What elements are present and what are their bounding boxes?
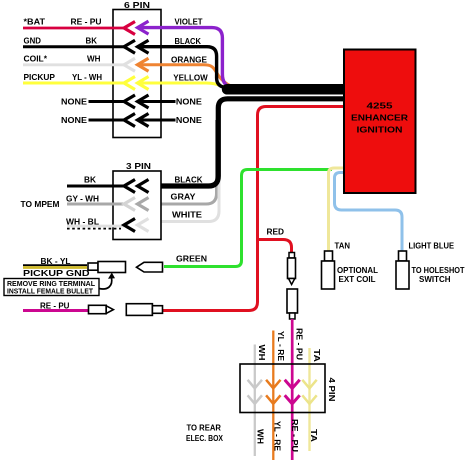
wire red branch to bullet <box>258 240 292 254</box>
chevron 3pin pin3 right (white) <box>138 219 149 232</box>
svg-text:*BAT: *BAT <box>24 18 46 27</box>
svg-text:SWITCH: SWITCH <box>419 275 451 284</box>
terminal female bullet green <box>137 262 163 272</box>
chevron 3pin pin1 right <box>138 180 149 193</box>
svg-text:WHITE: WHITE <box>172 210 203 219</box>
chevron 4pin TA a <box>302 380 316 389</box>
chevron pin5 left <box>124 95 135 108</box>
svg-text:ELEC. BOX: ELEC. BOX <box>186 434 224 443</box>
svg-text:WH: WH <box>87 54 101 63</box>
wire BK to 6-pin pin2 <box>23 45 124 48</box>
note box remove ring terminal <box>4 279 99 296</box>
svg-text:RE - PU: RE - PU <box>290 419 299 452</box>
wire black from 6-pin to harness <box>139 47 235 88</box>
terminal light blue bullet receptacle <box>396 251 409 289</box>
wire GY-WH to 3-pin <box>67 203 124 206</box>
svg-text:TO MPEM: TO MPEM <box>21 200 60 209</box>
connector J3 4 PIN box <box>240 364 336 413</box>
wire orange from 6-pin to harness <box>139 65 238 86</box>
chevron pin6 right <box>138 114 149 127</box>
svg-text:VIOLET: VIOLET <box>175 17 203 26</box>
svg-text:YL - WH: YL - WH <box>72 73 102 82</box>
wire YL-WH to 6-pin pin4 <box>23 82 124 85</box>
chevron pin3 left (white) <box>124 58 135 71</box>
svg-text:TA: TA <box>312 349 321 362</box>
svg-text:PICKUP GND: PICKUP GND <box>23 269 90 278</box>
wire RE-PU to 4-pin <box>291 319 294 460</box>
chevron pin4 right (yellow) <box>138 77 149 90</box>
svg-text:RED: RED <box>267 228 285 237</box>
chevron 4pin RE-PU a <box>285 380 300 389</box>
wire WH to 6-pin pin3 <box>23 63 124 66</box>
chevron 4pin WH b <box>248 395 262 404</box>
chevron 3pin pin1 left <box>124 180 135 193</box>
wire white riser from 3-pin (hidden behind black cable) <box>139 130 219 222</box>
chevron 3pin pin2 left (lt gray) <box>124 198 135 211</box>
svg-text:BLACK: BLACK <box>175 37 202 46</box>
svg-text:4 PIN: 4 PIN <box>327 378 336 402</box>
chevron pin3 right (orange) <box>138 58 149 71</box>
wire WH-BL to 3-pin (white) <box>67 225 124 228</box>
svg-text:NONE: NONE <box>61 98 88 107</box>
svg-text:TAN: TAN <box>335 241 351 250</box>
chevron pin1 right (violet) <box>138 21 149 34</box>
connector J1 6 PIN box <box>113 1 161 138</box>
svg-text:TO REAR: TO REAR <box>187 423 222 432</box>
svg-text:6 PIN: 6 PIN <box>124 1 150 10</box>
wire YL-RE to 4-pin <box>272 331 274 460</box>
svg-text:EXT COIL: EXT COIL <box>339 275 376 284</box>
chevron pin1 left (red) <box>124 22 135 35</box>
svg-text:PICKUP: PICKUP <box>24 73 56 82</box>
chevron 4pin YL-RE a <box>266 380 280 389</box>
wire none pin5 left <box>89 100 125 103</box>
wire light blue from module <box>335 173 403 252</box>
svg-text:BK: BK <box>84 176 96 185</box>
chevron pin6 left <box>124 114 135 127</box>
svg-text:NONE: NONE <box>61 116 88 125</box>
wire tan from module <box>329 168 345 251</box>
wire WH to 4-pin <box>254 345 256 457</box>
arrow from note to bullet <box>99 273 115 289</box>
svg-text:YL - RE: YL - RE <box>273 421 282 452</box>
wire red from module <box>161 107 345 311</box>
svg-text:YL - RE: YL - RE <box>276 331 285 362</box>
chevron 3pin pin2 right (gray) <box>138 198 149 211</box>
svg-text:TA: TA <box>309 429 318 442</box>
label OPTIONAL EXT COIL <box>337 266 378 284</box>
svg-text:COIL*: COIL* <box>24 54 48 63</box>
svg-text:LIGHT BLUE: LIGHT BLUE <box>409 241 455 250</box>
svg-text:GREEN: GREEN <box>176 254 207 263</box>
chevron 4pin YL-RE b <box>266 395 280 404</box>
svg-text:RE - PU: RE - PU <box>295 328 304 360</box>
svg-text:BLACK: BLACK <box>175 176 203 185</box>
module U1 4255 Enhancer Ignition <box>344 50 416 194</box>
chevron pin4 left (yellow) <box>124 77 135 90</box>
svg-text:3 PIN: 3 PIN <box>126 162 151 171</box>
wire violet from 6-pin to harness <box>139 28 240 88</box>
wire green to module <box>164 170 332 267</box>
chevron pin2 left <box>124 40 135 53</box>
wire none pin6 left <box>89 119 125 122</box>
wire gray riser from 3-pin (hidden behind black cable) <box>139 120 217 204</box>
svg-text:GND: GND <box>24 36 42 45</box>
wire RE-PU to 6-pin pin1 <box>23 27 124 30</box>
svg-text:OPTIONAL: OPTIONAL <box>337 266 378 275</box>
svg-text:IGNITION: IGNITION <box>357 125 403 134</box>
svg-text:YELLOW: YELLOW <box>173 74 208 83</box>
svg-text:NONE: NONE <box>176 98 203 107</box>
svg-text:ENHANCER: ENHANCER <box>351 114 408 123</box>
chevron 4pin WH a <box>248 380 262 389</box>
svg-text:GY - WH: GY - WH <box>66 194 99 203</box>
chevron 4pin TA b <box>302 395 316 404</box>
chevron pin2 right <box>138 40 149 53</box>
terminal male bullet re-pu <box>89 305 114 313</box>
svg-text:WH: WH <box>256 429 265 444</box>
svg-text:WH: WH <box>257 345 266 361</box>
wire black 3-pin riser to module <box>139 99 344 186</box>
svg-text:ORANGE: ORANGE <box>171 55 208 64</box>
chevron 3pin pin3 left (black) <box>124 219 135 232</box>
chevron 4pin RE-PU b <box>285 395 300 404</box>
wire WH-BL dashed stripe <box>67 228 121 230</box>
wire RE-PU pickup <box>23 309 89 312</box>
wire none pin6 right <box>139 119 176 122</box>
connector J2 3 PIN box <box>113 162 161 240</box>
svg-text:TO HOLESHOT: TO HOLESHOT <box>412 266 465 275</box>
label TO HOLESHOT SWITCH <box>412 266 465 284</box>
wire none pin5 right <box>139 100 176 103</box>
svg-text:INSTALL FEMALE BULLET: INSTALL FEMALE BULLET <box>7 287 93 296</box>
wire BK to 3-pin <box>67 185 124 188</box>
cable harness bundle to module <box>222 84 344 95</box>
svg-text:NONE: NONE <box>176 116 203 125</box>
terminal female bullet red <box>126 304 162 316</box>
chevron pin5 right <box>138 95 149 108</box>
svg-text:RE - PU: RE - PU <box>71 18 102 27</box>
terminal male bullet vertical (red) <box>288 253 296 285</box>
wire yellow from 6-pin to harness <box>139 83 232 87</box>
terminal tan bullet receptacle <box>322 251 335 289</box>
wire BK-YL pickup ground <box>23 265 87 267</box>
svg-text:BK: BK <box>86 36 98 45</box>
terminal female bullet vertical (re-pu) <box>287 289 298 319</box>
svg-text:GRAY: GRAY <box>171 193 197 202</box>
svg-text:4255: 4255 <box>367 102 394 111</box>
label TO REAR ELEC. BOX <box>186 423 224 443</box>
wire TA to 4-pin <box>308 348 310 451</box>
terminal male bullet pickup gnd <box>88 262 126 273</box>
